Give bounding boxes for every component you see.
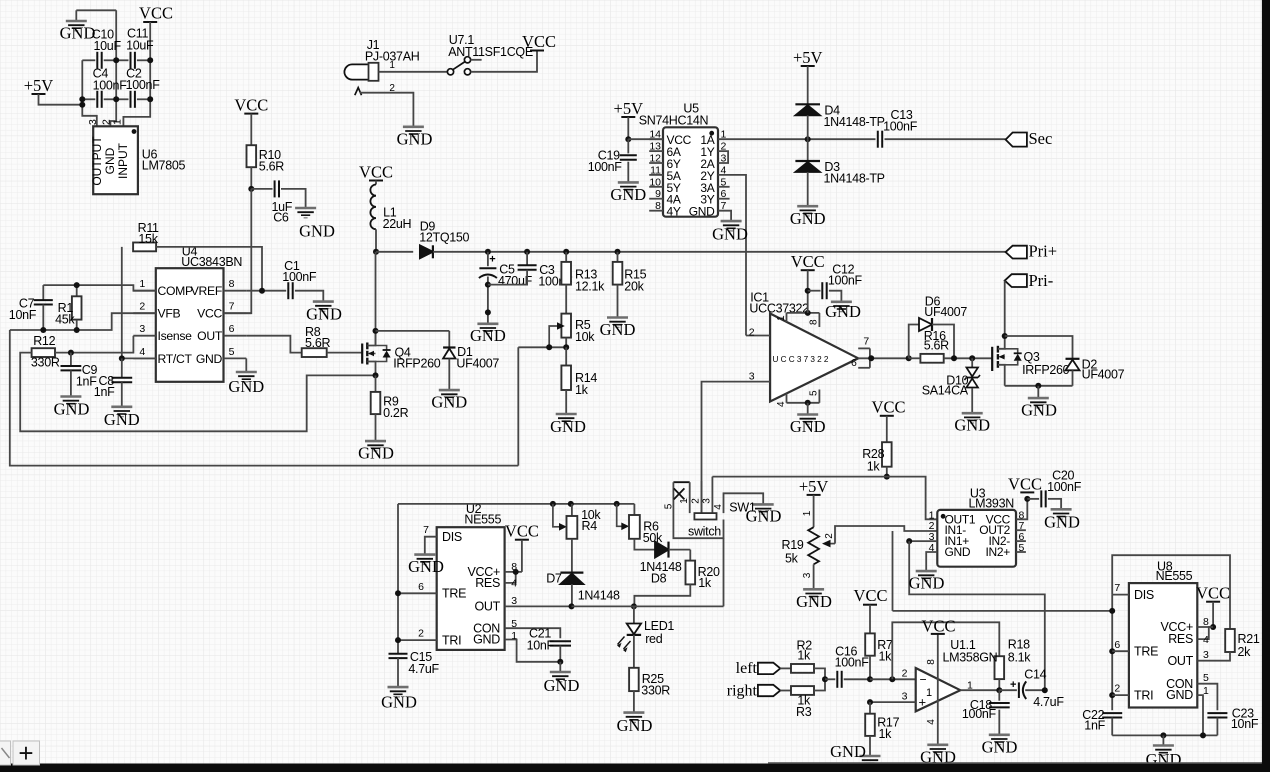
svg-text:1: 1 xyxy=(112,119,124,125)
capacitor C12 100nF xyxy=(808,290,821,292)
resistor R7 1k xyxy=(865,633,875,655)
svg-text:3: 3 xyxy=(511,595,517,607)
wire R14 to GND xyxy=(565,390,567,414)
transistor Q3 IRFP260 xyxy=(991,347,993,371)
svg-text:+5V: +5V xyxy=(799,477,829,496)
svg-text:5: 5 xyxy=(1203,672,1209,684)
wire R8 to Q4 gate xyxy=(327,352,363,354)
potentiometer R5 10k xyxy=(561,314,571,338)
U8 pin3 OUT xyxy=(1197,652,1230,661)
wire D3 to GND xyxy=(807,172,809,206)
wire +5V to U5 pin14 xyxy=(627,117,629,139)
IC1 pin3 input wire xyxy=(702,382,771,513)
wire R19 wiper to U3 IN1- xyxy=(835,526,937,544)
wire U2 top row xyxy=(398,503,634,505)
svg-text:GND: GND xyxy=(397,130,433,149)
ground GND under R19 xyxy=(803,588,824,591)
diode D7 1N4148 xyxy=(571,539,573,573)
svg-text:2: 2 xyxy=(902,668,908,680)
diode D8 1N4148 xyxy=(634,539,655,550)
svg-text:GND: GND xyxy=(610,185,646,204)
capacitor C2 100nF xyxy=(116,98,128,100)
wire R25 to GND xyxy=(633,691,635,713)
ground GND under U5 xyxy=(721,220,742,223)
diode D6 UF4007 xyxy=(909,325,919,359)
svg-text:GND: GND xyxy=(954,416,990,435)
U2 pin1 GND xyxy=(505,640,561,662)
capacitor C22 1nF xyxy=(1102,712,1122,714)
ground GND under U8 xyxy=(1153,744,1174,747)
svg-text:ANT11SF1CQE: ANT11SF1CQE xyxy=(448,45,533,59)
svg-text:+: + xyxy=(1010,679,1016,691)
svg-text:UCC37322: UCC37322 xyxy=(773,355,831,364)
wire R9 to GND xyxy=(375,414,377,441)
svg-text:IN2+: IN2+ xyxy=(986,545,1011,559)
diode D2 UF4007 xyxy=(1066,358,1080,360)
wire Q3 source rail xyxy=(1005,385,1073,387)
svg-text:GND: GND xyxy=(473,632,500,646)
U5 pin 8 4Y xyxy=(649,210,663,212)
capacitor C16 100nF xyxy=(825,678,835,680)
diode D3 1N4148-TP xyxy=(807,139,809,161)
svg-text:LM358GN: LM358GN xyxy=(943,650,998,664)
svg-text:OUTPUT: OUTPUT xyxy=(90,136,104,186)
svg-text:1: 1 xyxy=(776,315,787,321)
svg-text:330R: 330R xyxy=(641,684,670,698)
svg-text:VCC: VCC xyxy=(505,522,539,541)
capacitor C23 10nF xyxy=(1207,712,1227,714)
ground GND under R14 xyxy=(556,413,577,416)
IC U5 SN74HC14N xyxy=(663,127,718,216)
svg-text:3: 3 xyxy=(139,323,145,335)
capacitor C11 10uF xyxy=(116,59,128,61)
U4 pin 4 RT/CT xyxy=(133,357,156,359)
svg-text:GND: GND xyxy=(945,545,971,559)
capacitor C13 100nF xyxy=(877,131,879,148)
wire R7 to IN- row xyxy=(869,656,871,680)
svg-text:GND: GND xyxy=(1021,401,1057,420)
SW1 pin3 wire xyxy=(711,477,713,513)
wire drain node to D1 xyxy=(376,330,450,332)
feedback loop R18 xyxy=(892,622,999,679)
svg-text:GND: GND xyxy=(825,302,861,321)
svg-text:10k: 10k xyxy=(575,330,595,344)
svg-text:VCC: VCC xyxy=(522,32,556,51)
resistor R18 8.1k xyxy=(995,656,1005,679)
wire U4 pin6 OUT to R8 xyxy=(246,336,301,353)
wire R10 to C6 node xyxy=(250,167,252,189)
inductor L1 22uH xyxy=(375,181,377,185)
svg-text:1k: 1k xyxy=(879,650,893,664)
svg-text:2: 2 xyxy=(690,498,701,504)
svg-text:4: 4 xyxy=(713,504,724,510)
svg-text:10nF: 10nF xyxy=(1231,717,1259,731)
wire R17 to GND xyxy=(869,736,871,756)
svg-text:OUT: OUT xyxy=(197,329,223,343)
svg-text:5: 5 xyxy=(229,346,235,358)
resistor R8 5.6R xyxy=(302,348,327,357)
svg-text:12.1k: 12.1k xyxy=(575,279,605,293)
U4 pin 1 COMP xyxy=(133,290,156,292)
U8 pin2 TRI xyxy=(1112,694,1129,696)
resistor R2 1k xyxy=(780,667,791,669)
ground GND under U3 xyxy=(916,570,937,573)
svg-text:COMP: COMP xyxy=(158,284,194,298)
svg-text:4: 4 xyxy=(139,346,145,358)
svg-text:Pri-: Pri- xyxy=(1029,271,1054,290)
svg-text:1: 1 xyxy=(679,498,690,504)
resistor R20 1k xyxy=(689,550,691,561)
regulator U6 LM7805 xyxy=(93,126,138,194)
svg-text:100nF: 100nF xyxy=(962,707,997,721)
LED LED1 red xyxy=(633,606,635,623)
svg-text:1: 1 xyxy=(389,60,395,71)
U5 pin 9 4A xyxy=(649,198,663,200)
svg-text:GND: GND xyxy=(790,209,826,228)
svg-text:GND: GND xyxy=(1044,513,1080,532)
U5 pin 12 6Y xyxy=(649,162,663,164)
U5 pin1 wire to C13 xyxy=(718,138,876,140)
U3 pin3 IN1+ wire xyxy=(909,540,937,542)
ground GND under C15 xyxy=(388,686,409,689)
ground GND under C20 xyxy=(1051,508,1072,511)
svg-text:4: 4 xyxy=(926,719,937,725)
IC U4 UC3843BN xyxy=(156,268,224,382)
svg-text:TRE: TRE xyxy=(1134,645,1158,659)
svg-text:+5V: +5V xyxy=(24,76,54,95)
capacitor C5 470uF polarized xyxy=(487,252,489,266)
svg-text:GND: GND xyxy=(196,352,223,366)
U2 pin4 RES jog xyxy=(505,572,516,583)
svg-text:VREF: VREF xyxy=(191,284,222,298)
capacitor C1 100nF xyxy=(287,282,289,299)
switch SW1 xyxy=(673,481,689,483)
svg-text:6: 6 xyxy=(1114,639,1120,651)
wire main rail to Pri+ port xyxy=(433,251,1006,253)
ground GND under D3 xyxy=(797,205,818,208)
wire R12 left loop to Q4 source xyxy=(20,353,375,432)
U8 pin8 VCC+ xyxy=(1197,626,1213,628)
svg-text:1: 1 xyxy=(802,510,813,516)
ground GND under C5 xyxy=(477,322,498,325)
SW1 pin4 to GND xyxy=(724,493,764,513)
svg-text:8: 8 xyxy=(229,278,235,290)
wire SW1 pin3 row to U3 pin1 xyxy=(712,477,937,520)
svg-text:GND: GND xyxy=(617,716,653,735)
ground GND top-left xyxy=(75,10,77,21)
wire IN1- to U8 row xyxy=(892,531,894,611)
svg-text:GND: GND xyxy=(790,417,826,436)
svg-text:VCC: VCC xyxy=(359,163,393,182)
svg-text:5: 5 xyxy=(808,390,819,396)
port Pri- xyxy=(1005,274,1027,287)
svg-text:RT/CT: RT/CT xyxy=(158,352,193,366)
ground GND under C12 xyxy=(831,300,852,303)
svg-text:GND: GND xyxy=(228,377,264,396)
svg-text:GND: GND xyxy=(299,222,335,241)
wire OUT row xyxy=(572,605,724,607)
svg-text:GND: GND xyxy=(408,557,444,576)
svg-text:GND: GND xyxy=(982,738,1018,757)
svg-text:7: 7 xyxy=(863,336,869,348)
svg-text:10uF: 10uF xyxy=(126,39,154,53)
svg-text:6: 6 xyxy=(229,323,235,335)
svg-text:1: 1 xyxy=(926,687,932,699)
U3 pin8 VCC wire xyxy=(1016,499,1027,519)
wire R19 to GND xyxy=(813,564,815,589)
svg-text:VCC: VCC xyxy=(854,586,888,605)
IC1 output pins 7 6 xyxy=(858,347,870,349)
svg-text:UF4007: UF4007 xyxy=(1082,368,1125,382)
svg-text:2: 2 xyxy=(418,628,424,640)
IC U3 LM393N xyxy=(937,510,1016,567)
svg-text:UF4007: UF4007 xyxy=(924,305,967,319)
svg-text:1k: 1k xyxy=(797,648,811,662)
svg-text:2: 2 xyxy=(1114,683,1120,695)
svg-text:7: 7 xyxy=(229,301,235,313)
svg-text:TRI: TRI xyxy=(442,633,461,647)
IC U2 NE555 xyxy=(437,527,505,650)
ground GND under C21 xyxy=(559,662,561,672)
svg-text:3: 3 xyxy=(802,572,813,578)
svg-text:Q3: Q3 xyxy=(1024,350,1040,364)
svg-text:9: 9 xyxy=(655,188,661,200)
U1.1 output xyxy=(960,689,999,691)
U5 pin 14 VCC xyxy=(649,138,663,140)
wire C13 to Sec port xyxy=(885,138,1006,140)
svg-text:100nF: 100nF xyxy=(835,655,870,669)
wire J1 pin1 to switch xyxy=(379,71,448,73)
capacitor C8 1nF xyxy=(121,358,123,377)
svg-text:R19: R19 xyxy=(782,538,804,552)
svg-text:3: 3 xyxy=(902,691,908,703)
svg-text:3: 3 xyxy=(87,119,99,125)
svg-text:5.6R: 5.6R xyxy=(259,160,284,174)
U4 pin 5 GND xyxy=(224,357,247,359)
svg-text:LM393N: LM393N xyxy=(969,496,1015,510)
svg-text:1k: 1k xyxy=(867,460,881,474)
U4 pin 3 Isense xyxy=(133,335,156,337)
svg-text:1nF: 1nF xyxy=(94,385,115,399)
diode D1 UF4007 xyxy=(448,331,450,347)
U8 bottom wire xyxy=(1112,734,1217,736)
capacitor C15 4.7uF xyxy=(389,653,408,655)
right black bar xyxy=(1262,0,1270,772)
svg-text:4.7uF: 4.7uF xyxy=(408,662,439,676)
capacitor C10 10uF xyxy=(82,59,95,61)
U8 pin1 GND xyxy=(1197,695,1203,735)
svg-text:OUT: OUT xyxy=(475,599,501,613)
ground GND under U1.1 xyxy=(927,743,948,746)
resistor R9 0.2R xyxy=(371,392,381,414)
wire +5V to D4 xyxy=(807,66,809,104)
svg-text:1: 1 xyxy=(1203,685,1209,697)
svg-text:R12: R12 xyxy=(33,334,55,348)
ground GND under IC1 xyxy=(797,413,818,416)
svg-text:8: 8 xyxy=(808,319,819,325)
svg-text:D7: D7 xyxy=(546,571,562,585)
svg-text:3: 3 xyxy=(1203,649,1209,661)
IC1 pin4 stub xyxy=(786,394,788,403)
U4 pin 6 OUT xyxy=(224,335,247,337)
wire R28 to row xyxy=(886,467,888,477)
ground GND at SW1 xyxy=(753,503,774,506)
potentiometer R6 50k xyxy=(617,504,624,526)
svg-text:left: left xyxy=(736,660,758,677)
tab corner xyxy=(0,741,11,765)
svg-text:1: 1 xyxy=(511,630,517,642)
svg-text:1N4148-TP: 1N4148-TP xyxy=(824,115,885,129)
wire R20 bottom xyxy=(634,584,690,606)
svg-text:+: + xyxy=(919,695,926,710)
svg-text:VCC: VCC xyxy=(1196,584,1230,603)
svg-text:2: 2 xyxy=(749,327,755,339)
svg-text:GND: GND xyxy=(358,444,394,463)
svg-text:10uF: 10uF xyxy=(94,39,122,53)
wire VFB loop left xyxy=(10,330,519,466)
resistor R14 1k xyxy=(565,347,567,365)
wire SW1 bottom to OUT row xyxy=(723,538,725,606)
ground GND under R25 xyxy=(623,711,644,714)
capacitor C19 100nF xyxy=(627,139,629,153)
U4 pin 7 VCC xyxy=(224,312,247,314)
svg-text:1k: 1k xyxy=(575,383,589,397)
svg-text:GND: GND xyxy=(544,676,580,695)
svg-text:4: 4 xyxy=(511,578,517,590)
U2 pin3 OUT xyxy=(505,605,572,607)
svg-text:1k: 1k xyxy=(879,727,893,741)
svg-text:red: red xyxy=(645,632,663,646)
svg-text:50k: 50k xyxy=(643,531,663,545)
svg-text:7: 7 xyxy=(1114,582,1120,594)
svg-text:Sec: Sec xyxy=(1029,129,1053,148)
sleeve contact J1 xyxy=(355,88,362,96)
svg-text:14: 14 xyxy=(649,129,661,141)
wire Q4 source node xyxy=(373,372,379,378)
svg-text:LM7805: LM7805 xyxy=(142,159,186,173)
svg-text:GND: GND xyxy=(306,305,342,324)
svg-text:+: + xyxy=(18,738,33,768)
svg-text:IRFP260: IRFP260 xyxy=(1022,363,1070,377)
resistor R13 12.1k xyxy=(565,252,567,262)
IC1 pin8 stub xyxy=(818,313,820,327)
svg-text:VCC: VCC xyxy=(139,4,173,23)
svg-text:13: 13 xyxy=(649,141,661,153)
wire Pri- to Q3 drain xyxy=(1004,281,1006,336)
capacitor C9 1nF xyxy=(70,353,72,366)
port Pri+ xyxy=(1006,246,1027,259)
svg-text:GND: GND xyxy=(104,410,140,429)
svg-text:100nF: 100nF xyxy=(93,79,128,93)
svg-text:+: + xyxy=(489,254,495,266)
ground GND under R15 xyxy=(607,316,628,319)
svg-text:1N4148: 1N4148 xyxy=(578,588,620,602)
svg-text:RES: RES xyxy=(1168,632,1193,646)
svg-text:GND: GND xyxy=(470,326,506,345)
svg-text:330R: 330R xyxy=(31,356,60,370)
svg-text:7: 7 xyxy=(423,524,429,536)
svg-text:GND: GND xyxy=(381,693,417,712)
wire COMP row xyxy=(43,285,156,291)
wire IC1 output xyxy=(858,357,909,359)
svg-text:R4: R4 xyxy=(582,519,598,533)
resistor R21 2k xyxy=(1225,629,1235,652)
capacitor C3 100nF xyxy=(526,252,528,265)
svg-text:GND: GND xyxy=(689,205,715,219)
ground GND under D10 xyxy=(962,412,983,415)
svg-text:1: 1 xyxy=(139,278,145,290)
svg-text:GND: GND xyxy=(909,574,945,593)
IC1 pin2 input wire xyxy=(746,335,770,337)
IC1 bottom GND wire xyxy=(787,402,820,404)
U5 pin4 wire to IC1 pin2 xyxy=(718,175,746,336)
capacitor C20 100nF xyxy=(1027,498,1039,500)
svg-text:−: − xyxy=(920,673,927,687)
svg-text:100nF: 100nF xyxy=(883,119,918,133)
svg-text:8.1k: 8.1k xyxy=(1008,650,1031,664)
svg-text:10: 10 xyxy=(649,176,661,188)
svg-text:100nF: 100nF xyxy=(1047,480,1082,494)
svg-text:8: 8 xyxy=(655,200,661,212)
wire top xyxy=(76,9,116,11)
SW1 slider xyxy=(694,513,716,519)
wire VFB row xyxy=(10,313,156,330)
svg-text:45k: 45k xyxy=(55,313,75,327)
resistor R12 330R xyxy=(32,348,55,357)
capacitor C4 100nF xyxy=(82,98,95,100)
svg-text:Isense: Isense xyxy=(158,329,193,343)
svg-text:4.7uF: 4.7uF xyxy=(1033,695,1064,709)
svg-text:Pri+: Pri+ xyxy=(1029,242,1058,261)
svg-text:5: 5 xyxy=(511,618,517,630)
svg-text:100nF: 100nF xyxy=(126,78,161,92)
svg-text:RES: RES xyxy=(475,576,500,590)
wire rail +5V output xyxy=(82,60,97,126)
svg-text:5.6R: 5.6R xyxy=(924,339,949,353)
svg-text:100nF: 100nF xyxy=(588,160,623,174)
svg-text:NE555: NE555 xyxy=(464,512,501,526)
wire R12 to C9 node and Isense xyxy=(55,336,133,353)
svg-text:15k: 15k xyxy=(138,232,158,246)
svg-text:2k: 2k xyxy=(1238,645,1252,659)
ground GND under C8 xyxy=(111,405,132,408)
svg-text:5k: 5k xyxy=(785,552,799,566)
svg-text:5: 5 xyxy=(664,503,675,509)
R19 wiper xyxy=(825,543,835,545)
U8 pin7 DIS xyxy=(1112,594,1129,596)
svg-text:+5V: +5V xyxy=(793,48,823,67)
capacitor C18 100nF xyxy=(998,690,1000,701)
ground GND under C18 xyxy=(989,733,1010,736)
U5 pin 10 5Y xyxy=(649,186,663,188)
svg-text:3: 3 xyxy=(701,498,712,504)
capacitor C14 4.7uF polarized xyxy=(999,689,1017,691)
svg-text:UF4007: UF4007 xyxy=(456,357,499,371)
ground GND under C6 xyxy=(295,207,316,210)
IC U8 NE555 xyxy=(1129,583,1197,707)
ground GND under C1 xyxy=(313,300,334,303)
resistor R3 1k xyxy=(780,690,791,692)
IC1 pin1 stub xyxy=(786,313,788,322)
potentiometer R19 5k xyxy=(808,527,819,564)
U8 pin5 CON xyxy=(1197,684,1217,711)
svg-text:100nF: 100nF xyxy=(282,270,317,284)
svg-text:5.6R: 5.6R xyxy=(305,336,330,350)
svg-text:2: 2 xyxy=(139,301,145,313)
wire VREF to C1 xyxy=(246,290,286,292)
svg-text:GND: GND xyxy=(1166,688,1193,702)
U8 pin6 TRE xyxy=(1112,650,1129,652)
